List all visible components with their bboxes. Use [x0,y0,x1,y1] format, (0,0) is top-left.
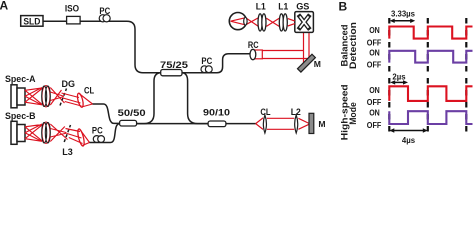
lens L1 (first doublet) [256,1,266,31]
svg-text:Spec-A: Spec-A [5,74,36,84]
svg-text:75/25: 75/25 [160,60,188,70]
beam: fiber tip to CL (reference arm) [256,118,263,129]
eye [229,13,247,30]
svg-text:ON: ON [369,48,380,57]
Spec-B beams DG to CL [66,129,83,144]
wire: SLD to ISO to PC to 75/25 coupler [43,21,161,72]
svg-text:M: M [318,119,325,129]
svg-text:OFF: OFF [367,98,382,107]
svg-text:OFF: OFF [367,121,382,130]
svg-text:M: M [314,59,321,69]
Spec-B beams CL to fiber tip [80,130,89,146]
svg-text:RC: RC [248,40,259,50]
svg-text:ON: ON [369,26,380,35]
coupler 50/50 [118,108,146,126]
svg-text:L1: L1 [256,1,266,11]
svg-text:PC: PC [99,5,110,16]
galvo scanner GS [295,1,314,32]
beam: L2 converging to M [298,118,309,129]
Spec-B camera [11,121,25,144]
polarization controller PC (Spec-B) [92,125,105,143]
rotated label Balanced Detection [340,22,358,69]
label 4us with arrow [389,128,428,145]
beam: L1a to L1b (crossing) [266,18,279,26]
waveform: high-speed Spec-A (red) [389,86,472,101]
ON/OFF labels high-speed [367,86,382,130]
collimating lens CL (reference arm) [260,107,271,133]
waveform: high-speed Spec-B (purple) [389,111,472,124]
svg-text:Mode: Mode [348,102,358,125]
rotated label High-speed Mode [340,84,358,140]
svg-text:OFF: OFF [367,60,382,69]
Spec-A beams camera to lens [25,88,42,106]
lens L1 (second doublet) [278,1,288,31]
wire: 75/25 left loop down to 50/50 [137,73,161,124]
beam: L1b to GS [288,19,295,26]
dashed timing grid [388,18,390,133]
Spec-A beams DG to CL [62,93,82,106]
svg-text:DG: DG [62,79,76,89]
ON/OFF labels balanced [367,26,382,69]
svg-text:ON: ON [369,109,380,118]
svg-text:Detection: Detection [348,22,358,69]
svg-text:ISO: ISO [65,3,79,13]
Spec-B beams camera to lens [25,124,42,142]
svg-text:3.33µs: 3.33µs [391,9,416,18]
svg-text:L1: L1 [278,1,288,11]
svg-text:50/50: 50/50 [118,108,146,118]
svg-text:B: B [339,0,348,14]
beam: eye to L1a (crossing) [246,18,259,26]
wire: bottom bus 50/50 to 90/10 to reference collimator [119,123,256,125]
Spec-A collimating lens CL [76,86,94,108]
Spec-A beams lens to DG [50,88,64,106]
wire: Spec-A to 50/50 [93,104,120,123]
coupler 75/25 [160,60,188,76]
svg-text:4µs: 4µs [402,136,416,145]
svg-text:A: A [0,0,9,12]
svg-text:OFF: OFF [367,39,382,48]
Spec-B collimating lens [77,128,86,146]
wire: Spec-B to 50/50 via PC [90,124,120,143]
wire: 75/25 right loop down to 90/10 [182,73,208,124]
Spec-B diffraction grating [64,125,70,142]
label 2us with arrow [390,73,408,85]
svg-text:CL: CL [84,86,95,96]
polarization controller PC (middle) [201,55,212,73]
beam: inside eye [231,18,246,25]
polarization controller PC (top) [99,5,110,22]
svg-text:ON: ON [369,86,380,95]
wire: 75/25 to PC to RC [182,54,251,73]
svg-text:SLD: SLD [23,16,40,26]
svg-text:Spec-B: Spec-B [5,111,36,121]
waveform: balanced Spec-A (red) [389,27,472,39]
Spec-B beams lens to DG [50,124,67,142]
svg-text:PC: PC [201,55,212,66]
label 3.33us with arrow [390,9,416,23]
fold mirror M [298,54,321,72]
isolator ISO [65,3,80,24]
svg-text:PC: PC [92,125,103,136]
reference collimator RC [248,40,262,59]
svg-text:L3: L3 [62,147,73,157]
waveform: balanced Spec-B (purple) [389,51,472,63]
Spec-B lens L3 [42,122,73,157]
svg-text:CL: CL [260,107,271,117]
svg-text:GS: GS [296,1,309,11]
svg-text:90/10: 90/10 [203,107,230,117]
beam: RC to fold mirror [262,51,308,59]
diffraction grating DG [60,79,75,106]
Spec-A lens [42,86,51,107]
beam: GS down to fold mirror [304,32,310,64]
lens L2 [291,107,301,133]
SLD source [21,16,43,27]
coupler 90/10 [203,107,230,126]
Spec-A beams CL to fiber tip [80,94,93,107]
beam: CL to L2 collimated [267,118,294,129]
Spec-A camera [11,85,25,108]
reference mirror M [309,113,326,133]
svg-text:2µs: 2µs [392,73,406,82]
